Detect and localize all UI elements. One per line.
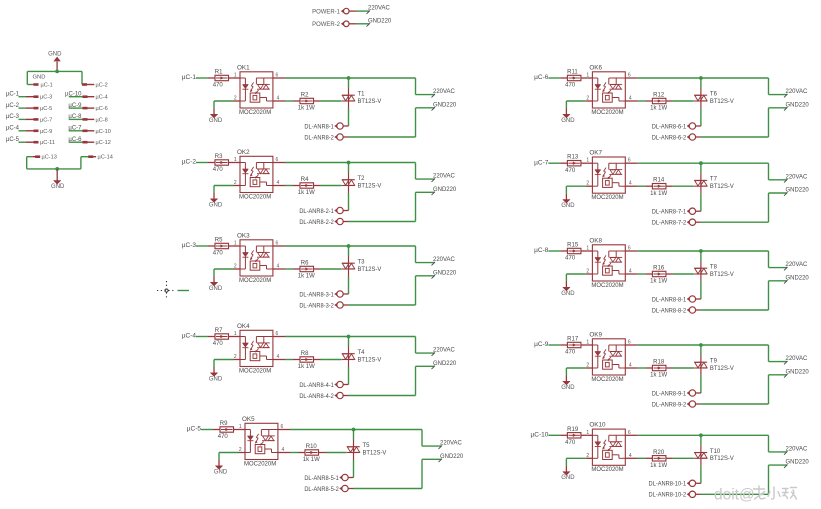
svg-text:BT12S-V: BT12S-V bbox=[358, 183, 382, 189]
svg-text:470: 470 bbox=[565, 350, 576, 356]
svg-text:DL-ANR8-2-2: DL-ANR8-2-2 bbox=[299, 220, 333, 226]
svg-text:R18: R18 bbox=[653, 360, 665, 366]
svg-text:220VAC: 220VAC bbox=[433, 173, 455, 180]
svg-text:220VAC: 220VAC bbox=[786, 355, 808, 362]
svg-text:1k 1W: 1k 1W bbox=[298, 106, 315, 112]
svg-text:DL-ANR8-6-1: DL-ANR8-6-1 bbox=[652, 124, 686, 130]
svg-text:µC-10: µC-10 bbox=[96, 129, 111, 135]
svg-text:OK3: OK3 bbox=[237, 232, 250, 239]
svg-text:220VAC: 220VAC bbox=[440, 440, 462, 447]
svg-text:T8: T8 bbox=[710, 265, 718, 271]
svg-text:µC-5: µC-5 bbox=[6, 137, 20, 143]
svg-text:µC-13: µC-13 bbox=[42, 155, 57, 161]
svg-text:470: 470 bbox=[213, 83, 224, 89]
svg-text:GND: GND bbox=[209, 286, 223, 292]
svg-text:µC-4: µC-4 bbox=[96, 95, 108, 101]
svg-text:T7: T7 bbox=[710, 177, 718, 183]
svg-text:BT12S-V: BT12S-V bbox=[358, 267, 382, 273]
svg-text:DL-ANR8-6-2: DL-ANR8-6-2 bbox=[652, 135, 686, 141]
svg-text:GND220: GND220 bbox=[786, 368, 810, 375]
svg-text:T6: T6 bbox=[710, 92, 718, 98]
svg-text:470: 470 bbox=[213, 167, 224, 173]
svg-text:BT12S-V: BT12S-V bbox=[363, 450, 387, 456]
svg-text:GND220: GND220 bbox=[433, 269, 457, 276]
svg-text:DL-ANR8-9-1: DL-ANR8-9-1 bbox=[652, 391, 686, 397]
svg-text:µC-4: µC-4 bbox=[6, 126, 20, 132]
svg-text:GND: GND bbox=[561, 291, 575, 297]
svg-text:1: 1 bbox=[586, 246, 589, 252]
svg-text:µC-1: µC-1 bbox=[6, 92, 20, 98]
svg-text:1k 1W: 1k 1W bbox=[303, 457, 320, 463]
svg-text:DL-ANR8-8-2: DL-ANR8-8-2 bbox=[652, 308, 686, 314]
svg-text:470: 470 bbox=[213, 251, 224, 257]
svg-text:220VAC: 220VAC bbox=[786, 88, 808, 95]
svg-text:1k 1W: 1k 1W bbox=[298, 274, 315, 280]
svg-text:MOC2020M: MOC2020M bbox=[591, 109, 623, 116]
svg-text:R17: R17 bbox=[567, 337, 579, 343]
svg-text:BT12S-V: BT12S-V bbox=[710, 366, 734, 372]
svg-text:µC-4: µC-4 bbox=[182, 333, 197, 340]
svg-text:MOC2020M: MOC2020M bbox=[591, 194, 623, 201]
svg-text:GND: GND bbox=[561, 475, 575, 481]
svg-text:µC-9: µC-9 bbox=[534, 341, 549, 348]
svg-text:DL-ANR8-10-1: DL-ANR8-10-1 bbox=[649, 482, 687, 488]
svg-text:470: 470 bbox=[565, 256, 576, 262]
svg-text:BT12S-V: BT12S-V bbox=[710, 99, 734, 105]
svg-text:MOC2020M: MOC2020M bbox=[591, 466, 623, 473]
svg-text:µC-6: µC-6 bbox=[534, 74, 549, 81]
svg-text:1: 1 bbox=[586, 430, 589, 436]
svg-text:GND: GND bbox=[209, 202, 223, 208]
svg-text:GND: GND bbox=[561, 385, 575, 391]
svg-text:R7: R7 bbox=[215, 328, 223, 334]
svg-text:R15: R15 bbox=[567, 243, 579, 249]
svg-text:T2: T2 bbox=[358, 176, 366, 182]
svg-text:T9: T9 bbox=[710, 359, 718, 365]
svg-text:GND220: GND220 bbox=[786, 274, 810, 281]
svg-text:R20: R20 bbox=[653, 450, 665, 456]
svg-text:MOC2020M: MOC2020M bbox=[244, 460, 276, 467]
svg-text:µC-11: µC-11 bbox=[40, 140, 55, 146]
svg-text:MOC2020M: MOC2020M bbox=[239, 277, 271, 284]
svg-text:GND: GND bbox=[51, 184, 65, 190]
svg-text:DL-ANR8-2-1: DL-ANR8-2-1 bbox=[299, 209, 333, 215]
svg-text:220VAC: 220VAC bbox=[433, 88, 455, 95]
svg-text:R16: R16 bbox=[653, 266, 665, 272]
svg-text:GND220: GND220 bbox=[786, 459, 810, 466]
svg-text:µC-3: µC-3 bbox=[182, 242, 197, 249]
svg-text:470: 470 bbox=[213, 341, 224, 347]
svg-text:470: 470 bbox=[218, 434, 229, 440]
svg-text:MOC2020M: MOC2020M bbox=[239, 109, 271, 116]
svg-text:µC-8: µC-8 bbox=[534, 247, 549, 254]
svg-text:R4: R4 bbox=[301, 177, 309, 183]
svg-text:µC-5: µC-5 bbox=[40, 106, 52, 112]
svg-text:µC-3: µC-3 bbox=[6, 114, 20, 120]
svg-text:GND220: GND220 bbox=[786, 186, 810, 193]
svg-text:1: 1 bbox=[234, 331, 237, 337]
svg-text:OK1: OK1 bbox=[237, 64, 250, 71]
svg-text:DL-ANR8-10-2: DL-ANR8-10-2 bbox=[649, 493, 687, 499]
svg-text:µC-2: µC-2 bbox=[96, 83, 108, 89]
svg-text:GND: GND bbox=[33, 75, 46, 81]
svg-text:µC-3: µC-3 bbox=[40, 95, 52, 101]
svg-text:µC-14: µC-14 bbox=[98, 155, 113, 161]
svg-text:BT12S-V: BT12S-V bbox=[710, 456, 734, 462]
svg-text:R6: R6 bbox=[301, 261, 309, 267]
svg-text:BT12S-V: BT12S-V bbox=[358, 357, 382, 363]
svg-text:1: 1 bbox=[586, 73, 589, 79]
svg-text:µC-10: µC-10 bbox=[531, 431, 549, 438]
svg-text:220VAC: 220VAC bbox=[368, 5, 390, 12]
svg-text:470: 470 bbox=[565, 440, 576, 446]
svg-text:BT12S-V: BT12S-V bbox=[710, 272, 734, 278]
svg-text:BT12S-V: BT12S-V bbox=[358, 99, 382, 105]
svg-text:R1: R1 bbox=[215, 70, 223, 76]
svg-text:GND220: GND220 bbox=[368, 17, 392, 24]
svg-text:R9: R9 bbox=[220, 421, 228, 427]
svg-text:DL-ANR8-2: DL-ANR8-2 bbox=[304, 135, 333, 141]
svg-text:DL-ANR8-3-2: DL-ANR8-3-2 bbox=[299, 303, 333, 309]
svg-text:OK8: OK8 bbox=[589, 237, 602, 244]
svg-text:220VAC: 220VAC bbox=[433, 347, 455, 354]
svg-text:R8: R8 bbox=[301, 351, 309, 357]
svg-text:µC-6: µC-6 bbox=[96, 106, 108, 112]
svg-text:R2: R2 bbox=[301, 93, 309, 99]
svg-text:MOC2020M: MOC2020M bbox=[239, 367, 271, 374]
svg-text:GND: GND bbox=[209, 376, 223, 382]
svg-text:T3: T3 bbox=[358, 260, 366, 266]
svg-text:1: 1 bbox=[234, 73, 237, 79]
svg-text:DL-ANR8-5-1: DL-ANR8-5-1 bbox=[304, 476, 338, 482]
svg-text:GND: GND bbox=[214, 469, 228, 475]
svg-text:T5: T5 bbox=[363, 443, 371, 449]
svg-text:DL-ANR8-4-1: DL-ANR8-4-1 bbox=[299, 383, 333, 389]
svg-text:OK9: OK9 bbox=[589, 331, 602, 338]
svg-text:1: 1 bbox=[586, 340, 589, 346]
svg-text:POWER-2: POWER-2 bbox=[312, 21, 340, 28]
svg-text:1k 1W: 1k 1W bbox=[650, 279, 667, 285]
svg-text:GND220: GND220 bbox=[433, 101, 457, 108]
svg-text:DL-ANR8-8-1: DL-ANR8-8-1 bbox=[652, 297, 686, 303]
svg-text:220VAC: 220VAC bbox=[433, 256, 455, 263]
svg-text:R5: R5 bbox=[215, 238, 223, 244]
svg-text:GND220: GND220 bbox=[786, 101, 810, 108]
svg-text:µC-5: µC-5 bbox=[187, 426, 202, 433]
svg-text:1k 1W: 1k 1W bbox=[650, 373, 667, 379]
svg-text:MOC2020M: MOC2020M bbox=[239, 193, 271, 200]
svg-text:µC-7: µC-7 bbox=[534, 159, 549, 166]
svg-text:R10: R10 bbox=[306, 444, 318, 450]
svg-text:µC-1: µC-1 bbox=[182, 74, 197, 81]
svg-text:doit@: doit@ bbox=[714, 487, 755, 504]
svg-text:µC-12: µC-12 bbox=[96, 140, 111, 146]
svg-text:GND: GND bbox=[209, 118, 223, 124]
svg-text:T4: T4 bbox=[358, 350, 366, 356]
svg-text:MOC2020M: MOC2020M bbox=[591, 282, 623, 289]
svg-text:µC-2: µC-2 bbox=[6, 103, 20, 109]
svg-text:µC-8: µC-8 bbox=[96, 117, 108, 123]
svg-text:OK6: OK6 bbox=[589, 64, 602, 71]
svg-text:DL-ANR8-3-1: DL-ANR8-3-1 bbox=[299, 292, 333, 298]
svg-text:GND220: GND220 bbox=[440, 453, 464, 460]
svg-text:GND: GND bbox=[561, 118, 575, 124]
svg-text:R14: R14 bbox=[653, 178, 665, 184]
svg-text:R11: R11 bbox=[567, 70, 578, 76]
svg-text:GND: GND bbox=[561, 203, 575, 209]
svg-text:R19: R19 bbox=[567, 427, 579, 433]
svg-text:OK5: OK5 bbox=[242, 416, 255, 423]
svg-text:1k 1W: 1k 1W bbox=[650, 106, 667, 112]
svg-text:1k 1W: 1k 1W bbox=[650, 191, 667, 197]
svg-text:POWER-1: POWER-1 bbox=[312, 8, 340, 15]
svg-text:T1: T1 bbox=[358, 92, 366, 98]
svg-text:1: 1 bbox=[234, 241, 237, 247]
svg-text:DL-ANR8-7-1: DL-ANR8-7-1 bbox=[652, 209, 686, 215]
svg-text:220VAC: 220VAC bbox=[786, 261, 808, 268]
svg-text:OK4: OK4 bbox=[237, 323, 250, 330]
svg-text:OK2: OK2 bbox=[237, 149, 250, 156]
svg-text:1: 1 bbox=[239, 424, 242, 430]
svg-text:1k 1W: 1k 1W bbox=[298, 364, 315, 370]
svg-text:R12: R12 bbox=[653, 93, 665, 99]
svg-text:220VAC: 220VAC bbox=[786, 173, 808, 180]
svg-text:OK7: OK7 bbox=[589, 150, 602, 157]
svg-text:OK10: OK10 bbox=[589, 422, 606, 429]
svg-text:BT12S-V: BT12S-V bbox=[710, 184, 734, 190]
svg-text:R3: R3 bbox=[215, 154, 223, 160]
svg-text:µC-1: µC-1 bbox=[41, 83, 53, 89]
svg-text:DL-ANR8-4-2: DL-ANR8-4-2 bbox=[299, 394, 333, 400]
svg-text:DL-ANR8-5-2: DL-ANR8-5-2 bbox=[304, 487, 338, 493]
svg-text:DL-ANR8-9-2: DL-ANR8-9-2 bbox=[652, 402, 686, 408]
svg-text:GND: GND bbox=[48, 51, 62, 57]
svg-text:µC-7: µC-7 bbox=[40, 117, 52, 123]
svg-text:µC-9: µC-9 bbox=[40, 129, 52, 135]
svg-text:DL-ANR8-7-2: DL-ANR8-7-2 bbox=[652, 220, 686, 226]
svg-text:1: 1 bbox=[586, 158, 589, 164]
svg-text:220VAC: 220VAC bbox=[786, 445, 808, 452]
svg-text:1k 1W: 1k 1W bbox=[650, 463, 667, 469]
svg-text:1: 1 bbox=[234, 157, 237, 163]
svg-text:470: 470 bbox=[565, 83, 576, 89]
svg-text:R13: R13 bbox=[567, 155, 579, 161]
svg-text:GND220: GND220 bbox=[433, 360, 457, 367]
svg-text:470: 470 bbox=[565, 168, 576, 174]
svg-text:MOC2020M: MOC2020M bbox=[591, 376, 623, 383]
svg-text:DL-ANR8-1: DL-ANR8-1 bbox=[304, 124, 333, 130]
svg-text:T10: T10 bbox=[710, 449, 721, 455]
svg-text:µC-2: µC-2 bbox=[182, 159, 197, 166]
svg-text:GND220: GND220 bbox=[433, 186, 457, 193]
svg-text:1k 1W: 1k 1W bbox=[298, 190, 315, 196]
